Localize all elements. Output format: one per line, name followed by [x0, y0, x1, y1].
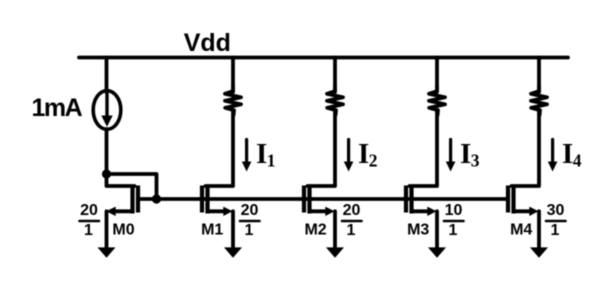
svg-text:1: 1 [245, 222, 254, 239]
svg-text:1: 1 [449, 222, 458, 239]
svg-text:M0: M0 [112, 222, 134, 239]
wire Vdd rail to load resistor (M4 branch) [537, 58, 541, 93]
svg-text:1mA: 1mA [32, 94, 83, 122]
wire Vdd rail to load resistor (M1 branch) [231, 58, 235, 93]
current arrow I4 [548, 140, 558, 172]
ground (M0 source) [98, 247, 116, 257]
ground (M3 source) [428, 247, 446, 257]
size label 30/1 (M4) [546, 202, 566, 239]
transistor M4 [508, 185, 539, 217]
node B (gate bus junction) [152, 194, 161, 203]
svg-text:20: 20 [241, 202, 259, 219]
node A [102, 169, 111, 178]
wire M1 source to ground [231, 211, 235, 248]
wire gate bus M0 to M4 [157, 197, 509, 201]
ground (M1 source) [224, 247, 242, 257]
wire Vdd rail [79, 56, 568, 60]
svg-text:Vdd: Vdd [184, 29, 231, 57]
ground (M2 source) [326, 247, 344, 257]
svg-text:M2: M2 [304, 222, 326, 239]
wire M3 source to ground [435, 211, 439, 248]
resistor load (drain of M4) [531, 86, 547, 115]
current arrow I2 [344, 140, 354, 172]
wire M0 source to ground [105, 211, 109, 248]
ground (M4 source) [530, 247, 548, 257]
svg-text:M1: M1 [201, 222, 223, 239]
svg-text:1: 1 [347, 222, 356, 239]
wire M2 source to ground [333, 211, 337, 248]
resistor load (drain of M3) [429, 86, 445, 115]
size label 10/1 (M3) [444, 202, 464, 239]
size label 20/1 (M1) [240, 202, 260, 239]
wire M4 source to ground [537, 211, 541, 248]
transistor M2 [304, 185, 335, 217]
wire current source to node A [105, 129, 109, 174]
transistor M1 [202, 185, 233, 217]
current arrow I3 [446, 140, 456, 172]
svg-text:M3: M3 [407, 222, 429, 239]
current source 1mA [93, 91, 121, 130]
svg-text:M4: M4 [510, 222, 532, 239]
wire resistor to M4 drain [512, 111, 540, 187]
svg-text:1: 1 [84, 222, 93, 239]
transistor M0 [106, 185, 157, 217]
wire Vdd rail to current source [105, 58, 109, 93]
svg-text:1: 1 [551, 222, 560, 239]
wire resistor to M2 drain [308, 111, 336, 187]
wire Vdd rail to load resistor (M3 branch) [435, 58, 439, 93]
size label 20/1 (M2) [342, 202, 362, 239]
resistor load (drain of M1) [225, 86, 241, 115]
svg-text:20: 20 [343, 202, 361, 219]
current arrow I1 [242, 140, 252, 172]
resistor load (drain of M2) [327, 86, 343, 115]
svg-text:10: 10 [445, 202, 463, 219]
wire node A to M0 drain [107, 174, 135, 186]
wire resistor to M1 drain [206, 111, 234, 187]
transistor M3 [406, 185, 437, 217]
svg-text:30: 30 [547, 202, 565, 219]
svg-text:20: 20 [80, 202, 98, 219]
wire Vdd rail to load resistor (M2 branch) [333, 58, 337, 93]
size label 20/1 (M0) [80, 202, 100, 239]
wire node A to node B (M0 drain-gate tie) [107, 174, 157, 199]
wire resistor to M3 drain [410, 111, 438, 187]
